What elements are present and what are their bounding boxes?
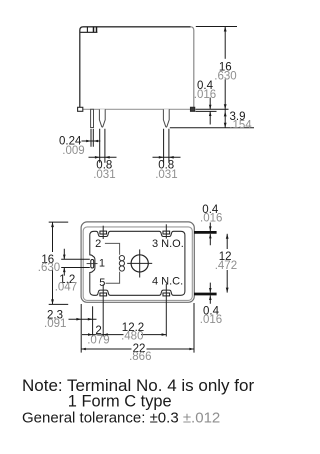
svg-text:4 N.C.: 4 N.C.	[152, 276, 183, 288]
pin 4 cross-section	[163, 293, 170, 296]
case left foot	[78, 107, 83, 111]
dimension line 22/.866	[81, 348, 194, 350]
pin 2 centerline	[102, 226, 104, 239]
relay bottom view second contour	[83, 227, 192, 301]
svg-text:2: 2	[95, 238, 101, 250]
svg-text:.091: .091	[44, 318, 66, 330]
svg-text:1 Form C type: 1 Form C type	[68, 392, 172, 410]
leader for 0.4/.016 standoff	[209, 98, 211, 125]
extension line right edge of bottom view	[193, 303, 195, 353]
pins 3/4 side view (tapered)	[163, 109, 169, 127]
svg-text:.480: .480	[121, 331, 143, 343]
dimension line 2/.079 and 12.2/.480	[82, 334, 166, 336]
label 2	[96, 327, 102, 334]
svg-text:.016: .016	[200, 314, 222, 326]
relay bottom view outer contour	[81, 222, 194, 302]
pin 5 centerline and extension	[102, 284, 104, 336]
pin 1 centerline	[87, 263, 98, 265]
svg-text:.031: .031	[93, 169, 115, 181]
extension lines pin1 width 0.24	[91, 129, 93, 147]
pin 3 cross-section	[163, 231, 170, 234]
svg-text:General tolerance: ±0.3 ±.012: General tolerance: ±0.3 ±.012	[22, 410, 220, 427]
relay bottom view inner contour with pin notches	[90, 231, 185, 295]
extension lines pins 3/4 width	[164, 129, 169, 163]
dimension line 0.8 right	[153, 156, 181, 158]
pin 3 centerline	[165, 224, 167, 238]
leader 0.4/.016 top right	[209, 223, 211, 246]
leader 0.4/.016 bottom right	[209, 283, 211, 304]
svg-text:.047: .047	[55, 282, 77, 294]
svg-text:.016: .016	[200, 213, 222, 225]
pin 1 side view (thin blade)	[91, 109, 94, 127]
svg-text:.079: .079	[87, 335, 109, 347]
svg-text:5: 5	[99, 277, 105, 289]
extension line pin1 column	[92, 306, 94, 336]
svg-text:.866: .866	[129, 351, 151, 363]
extension line from case top right	[196, 26, 237, 28]
relay case side view (top drawing)	[80, 27, 194, 110]
pin 5 cross-section	[100, 293, 107, 296]
case top-left step detail	[80, 27, 97, 33]
armature circle with crosshair	[131, 255, 148, 272]
label 16	[217, 59, 235, 80]
pin 4 centerline and extension	[165, 284, 167, 337]
svg-text:.154: .154	[229, 120, 252, 132]
svg-text:3 N.O.: 3 N.O.	[152, 238, 184, 250]
svg-text:.009: .009	[62, 145, 84, 157]
dimension line 12/.472	[226, 234, 228, 293]
extension lines pin 4 thickness (bottom right)	[194, 293, 217, 296]
dimension line 0.24	[82, 140, 101, 142]
pin 2 cross-section	[100, 231, 107, 234]
wire from pin 2 to coil	[105, 243, 120, 254]
dimension line 0.8 left	[89, 156, 117, 158]
dimension line 2.3/.091	[69, 318, 97, 320]
svg-text:.031: .031	[155, 169, 177, 181]
extension lines pin 3 thickness (top right)	[194, 231, 217, 234]
label .480	[124, 332, 142, 340]
extension line at pin tips	[170, 127, 254, 129]
extension lines case bottom / foot bottom right	[196, 108, 229, 110]
extension lines pin1 slot 1.2	[61, 259, 90, 267]
case right foot	[191, 107, 195, 111]
extension line left edge of bottom view	[80, 304, 82, 353]
svg-text:.016: .016	[194, 89, 216, 101]
dimension 16/.630 left of bottom view	[49, 221, 68, 223]
coil (3 turns)	[119, 256, 124, 261]
dimension line 16/.630 (case height) and 3.9/.154 (pin length)	[224, 27, 226, 128]
svg-text:1: 1	[99, 258, 105, 270]
svg-text:.630: .630	[38, 262, 60, 274]
svg-text:.630: .630	[214, 70, 236, 82]
pins 2/5 side view (tapered)	[99, 109, 105, 127]
extension lines pins 2/5 width	[100, 129, 105, 163]
svg-text:.472: .472	[215, 260, 237, 272]
pin 1 cross-section (flat blade)	[91, 260, 94, 269]
wire from pin 5 to coil	[106, 272, 120, 283]
leader 1.2/.047	[63, 249, 65, 276]
